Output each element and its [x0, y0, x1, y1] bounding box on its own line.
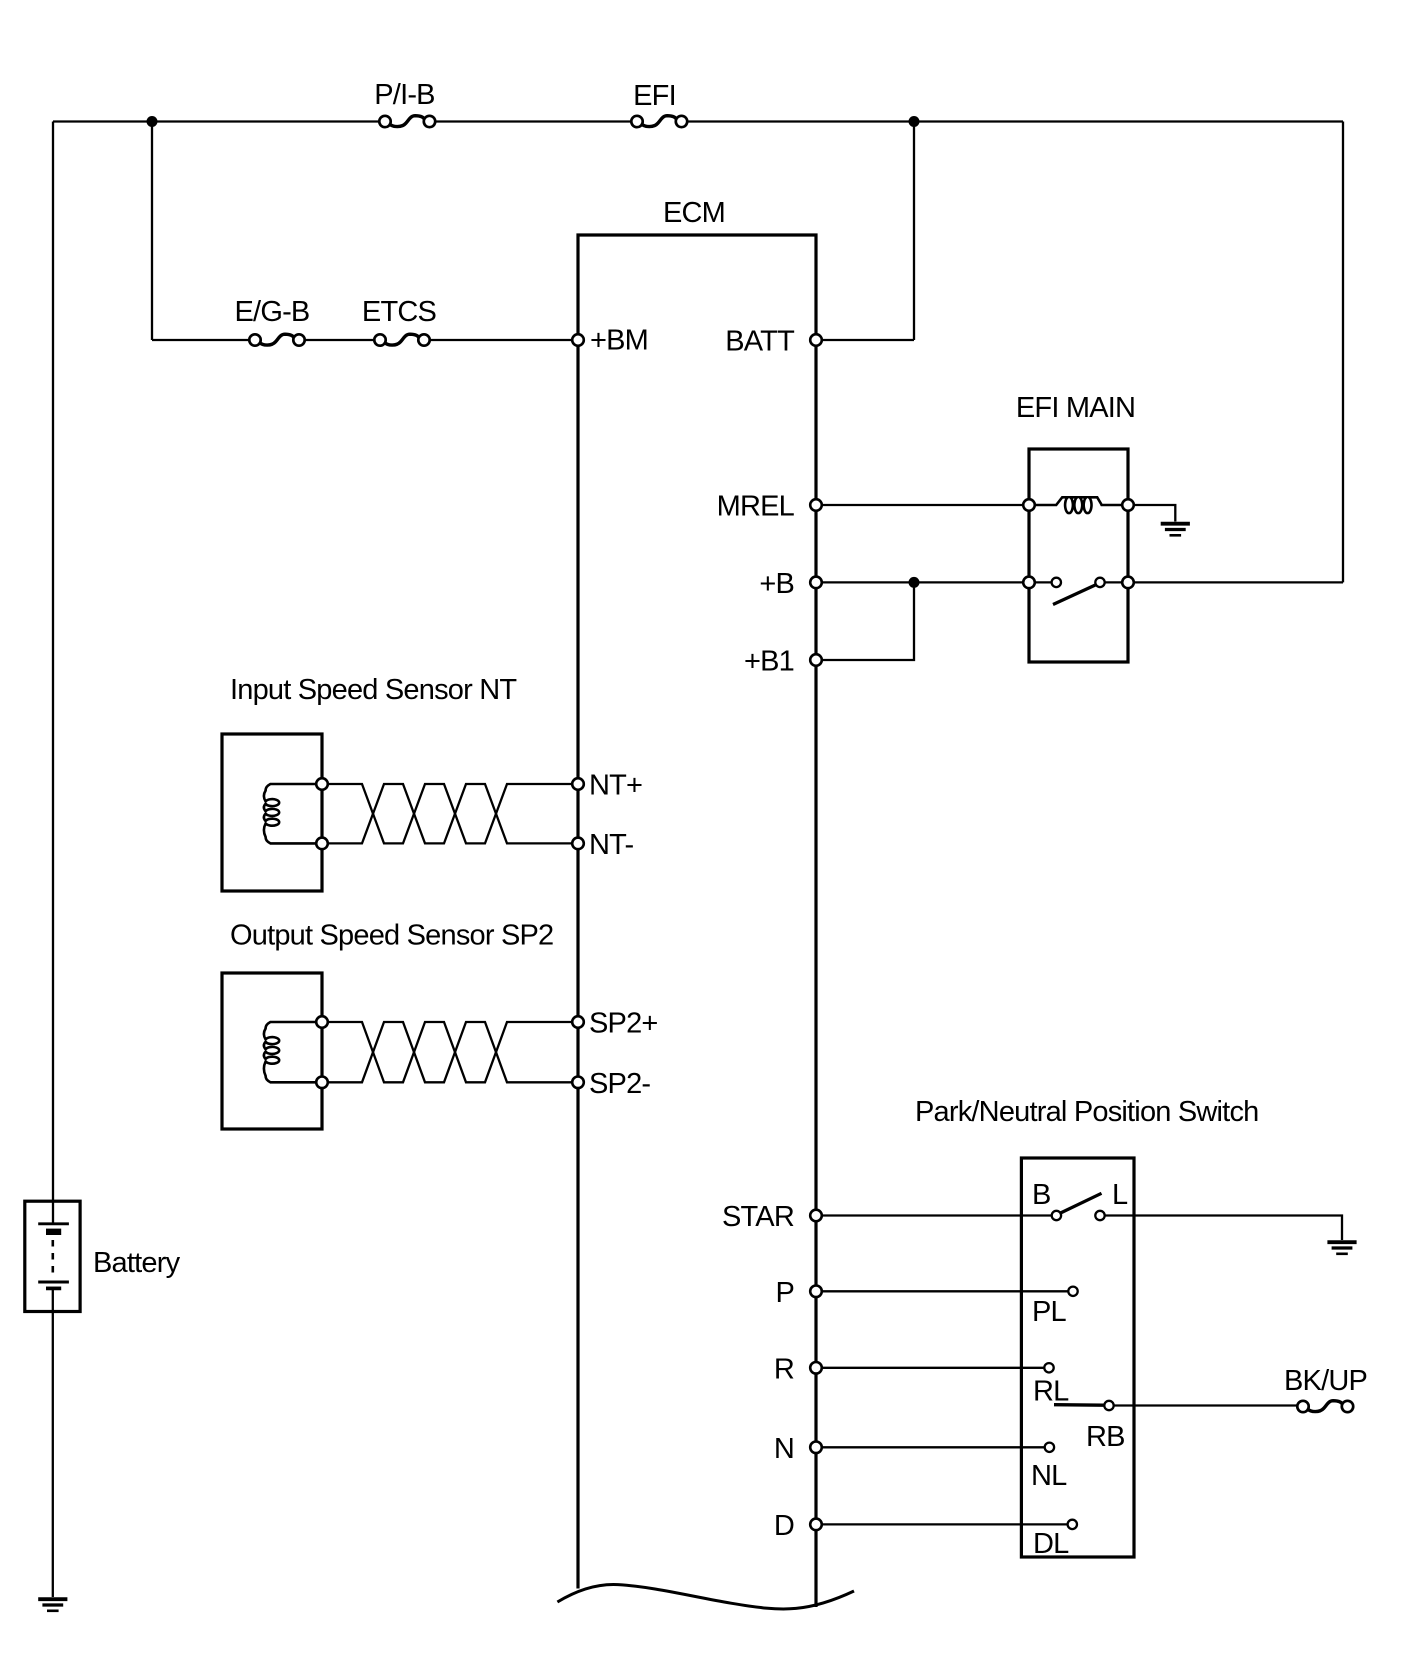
svg-text:+BM: +BM [590, 325, 648, 357]
svg-text:ECM: ECM [663, 197, 725, 229]
svg-text:ETCS: ETCS [362, 296, 437, 328]
svg-text:+B1: +B1 [744, 646, 794, 678]
svg-text:L: L [1112, 1179, 1128, 1211]
svg-text:Park/Neutral Position Switch: Park/Neutral Position Switch [915, 1096, 1258, 1128]
svg-text:NL: NL [1031, 1460, 1067, 1492]
svg-text:Battery: Battery [93, 1247, 181, 1279]
svg-text:EFI MAIN: EFI MAIN [1016, 392, 1135, 424]
svg-text:D: D [774, 1510, 794, 1542]
svg-text:B: B [1032, 1179, 1051, 1211]
svg-text:E/G-B: E/G-B [235, 296, 310, 328]
svg-text:STAR: STAR [722, 1201, 794, 1233]
svg-text:P/I-B: P/I-B [374, 79, 434, 111]
svg-text:R: R [774, 1353, 794, 1385]
svg-text:NT-: NT- [589, 829, 633, 861]
svg-text:RB: RB [1086, 1421, 1125, 1453]
svg-text:RL: RL [1033, 1376, 1069, 1408]
svg-text:+B: +B [759, 568, 794, 600]
svg-text:DL: DL [1033, 1528, 1069, 1560]
svg-text:Output Speed Sensor SP2: Output Speed Sensor SP2 [230, 920, 553, 952]
svg-text:BK/UP: BK/UP [1284, 1365, 1367, 1397]
svg-text:SP2-: SP2- [589, 1068, 650, 1100]
svg-text:EFI: EFI [633, 80, 676, 112]
svg-text:N: N [774, 1433, 794, 1465]
svg-text:PL: PL [1032, 1296, 1067, 1328]
svg-text:MREL: MREL [717, 491, 795, 523]
svg-text:NT+: NT+ [589, 770, 642, 802]
svg-text:P: P [775, 1277, 794, 1309]
svg-text:Input Speed Sensor NT: Input Speed Sensor NT [230, 674, 517, 706]
svg-text:BATT: BATT [725, 326, 795, 358]
svg-text:SP2+: SP2+ [589, 1008, 658, 1040]
